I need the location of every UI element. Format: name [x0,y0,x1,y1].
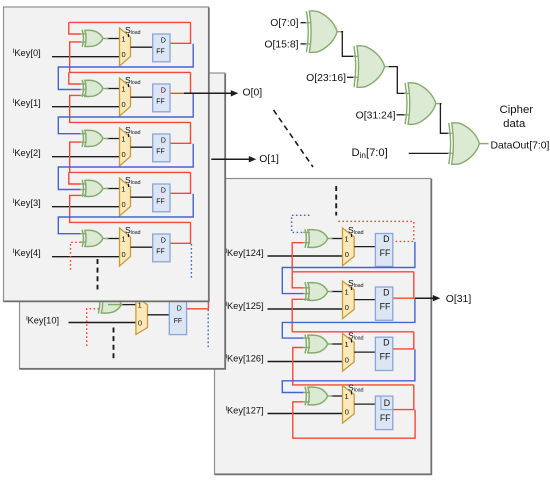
svg-text:O[7:0]: O[7:0] [270,18,298,29]
output arrow O[0] [231,90,239,96]
panel P2 shadow edges [19,74,225,369]
xor126 output stub [328,343,333,345]
panel P1 key-register background (rows 0..4) [4,7,209,301]
wire red FF127 feedback top horizontal [292,384,414,386]
mux124 select tick [351,234,353,237]
flip-flop127 D sub-box [381,396,393,410]
svg-text:IKey[10]: IKey[10] [26,316,59,326]
svg-text:O[15:8]: O[15:8] [264,39,298,50]
svg-text:0: 0 [122,50,126,59]
wire red FF125 feedback right vertical [413,272,415,298]
wire IKey[125] input line to mux 0 [268,308,343,310]
svg-text:1: 1 [121,234,125,243]
svg-text:0: 0 [138,319,142,328]
xor0 input stub 1 [80,41,86,43]
xor3 input stub 1 [80,189,86,191]
mux row IKey[1] [120,78,131,116]
wire blue FF125 output to xor126 [282,299,415,338]
wire red FF2 feedback right vertical [190,122,192,143]
xor127 output stub [328,395,333,397]
xor gate U1 (O[7:0] ^ O[15:8]) [309,11,337,52]
xor126 input stub 1 [303,347,310,349]
wire O[31] tap from FF125 output [415,297,434,299]
xor124 input stub 0 [303,231,310,233]
wire dotted red into xor row10 bottom input [87,309,99,346]
svg-text:0: 0 [345,250,349,259]
xor gate row IKey[4] [85,230,103,246]
xor1 input stub 2 [80,94,86,96]
svg-text:IKey[125]: IKey[125] [225,301,263,311]
svg-text:IKey[0]: IKey[0] [13,48,41,58]
flip-flop FF row IKey[0] [153,34,170,62]
wire mux2 output to D-FF [131,146,153,148]
wire xor0 output to mux 1 input [107,38,120,40]
svg-text:0: 0 [122,200,126,209]
xor4 input stub 0 [80,233,86,235]
mux126 select tick [351,339,353,342]
wire red FF2 output [170,142,191,144]
wire red FF125 output [393,297,415,299]
xor4 input stub 1 [80,241,86,243]
xor2 output stub [103,138,109,140]
wire red FF126 output [393,348,415,350]
wire red FF2 feedback top horizontal [69,121,191,123]
svg-text:1: 1 [121,84,125,93]
wire red FF3 output [170,192,191,194]
wire red FF4 feedback top horizontal [69,221,191,223]
xor1 output stub [103,88,109,90]
xor0 input stub 0 [80,33,86,35]
flip-flop FF row IKey[2] [153,134,170,162]
svg-text:0: 0 [122,250,126,259]
xor U1 input stub b [306,43,314,45]
svg-text:1: 1 [121,134,125,143]
wire red FF126 feedback right vertical [413,332,415,349]
wire red xor126 bottom input from FF127 [293,348,304,385]
mux row IKey[126] [343,334,355,372]
xor gate row IKey[125] [308,283,328,301]
svg-text:D: D [383,234,389,244]
mux3 select tick [128,184,130,187]
wire Din[7:0] input to xor U4 [409,152,450,154]
svg-text:FF: FF [156,49,164,56]
svg-text:FF: FF [380,248,391,258]
svg-text:IKey[126]: IKey[126] [225,354,263,364]
wire mux126 output to D-FF [354,351,375,353]
wire xor2 output to mux 1 input [107,138,120,140]
xor gate U3 (^ O[31:24]) [408,83,436,124]
wire red FF125 feedback top horizontal [292,271,414,273]
xor0 output stub [103,38,109,40]
wire xor3 output to mux 1 input [107,188,120,190]
wire red xor3 bottom input from FF4 [70,195,81,222]
wire red FF1 output [170,92,191,94]
wire red FF3 feedback right vertical [190,172,192,193]
mux row IKey[0] [120,28,131,66]
svg-text:FF: FF [156,249,164,256]
wire mux3 output to D-FF [131,196,153,198]
flip-flop FF row IKey[1] [153,84,170,112]
flip-flop FF row IKey[10] [169,300,186,335]
panel P2 key-register background (rows 5..15) [20,73,225,369]
svg-text:D: D [383,338,389,348]
wire xor U1 output to xor U2 [341,32,355,57]
xor127 input stub 0 [303,392,310,394]
flip-flop FF row IKey[127] [375,396,392,430]
svg-text:D: D [177,305,182,312]
wire red into xor3 top input [69,172,81,184]
svg-text:FF: FF [380,301,391,311]
flip-flop FF row IKey[4] [153,234,170,262]
xor U2 output stub [384,66,391,68]
wire red FF4 output [170,242,191,244]
wire red FF row10 output [187,301,209,309]
ellipsis dashed diagonal between O[1] and O[31] [274,110,314,167]
wire blue FF124 output to xor125 [282,242,415,294]
wire xor U3 output to xor U4 [440,104,450,134]
svg-text:0: 0 [345,407,349,416]
xor U2 input stub a [353,55,361,57]
mux row IKey[2] [120,128,131,166]
wire dotted blue FF4 output continuation down [190,244,192,279]
panel P3 key-register background (rows 120..127) [215,179,432,475]
wire IKey[127] input line to mux 0 [268,413,343,415]
mux127 select tick [351,391,353,394]
wire red FF126 feedback top horizontal [292,331,414,333]
xor127 input stub 1 [303,401,310,403]
mux row IKey[3] [120,178,131,216]
xor gate row IKey[10] [101,295,121,313]
wire red FF0 output [170,42,191,44]
wire xor1 output to mux 1 input [107,88,120,90]
svg-text:D: D [161,238,166,245]
xor U1 input stub a [306,22,314,24]
wire mux125 output to D-FF [354,299,375,301]
xor124 input stub 1 [303,242,310,244]
panel P3 shadow edges [214,179,431,474]
svg-text:O[31]: O[31] [446,294,472,305]
xor gate row IKey[126] [308,335,328,353]
xor gate row IKey[127] [308,387,328,405]
svg-text:FF: FF [174,318,182,325]
svg-text:1: 1 [345,340,349,349]
xor1 input stub 1 [80,89,86,91]
wire O[15:8] input to xor U1 [301,43,308,45]
flip-flop FF row IKey[3] [153,184,170,212]
mux row IKey[4] [120,228,131,266]
mux0 select tick [128,34,130,37]
xor U4 input stub a [448,132,456,134]
wire mux0 output to D-FF [131,46,153,48]
wire xor127 output to mux 1 input [331,395,343,397]
wire mux row10 output to D-FF [148,314,170,316]
output arrow O[31] [433,295,441,301]
wire mux124 output to D-FF [354,246,375,248]
xor2 input stub 1 [80,141,86,143]
svg-text:1: 1 [121,34,125,43]
flip-flop FF row IKey[125] [375,287,392,320]
ellipsis dashed continuation below row4 [97,259,99,290]
xor gate row IKey[0] [85,30,103,46]
wire red xor0 bottom input from FF1 [70,42,81,73]
wire mux1 output to D-FF [131,96,153,98]
flip-flop FF row IKey[126] [375,337,392,370]
xor3 input stub 0 [80,183,86,185]
svg-text:FF: FF [156,199,164,206]
svg-text:IKey[4]: IKey[4] [13,248,41,258]
svg-text:1: 1 [345,287,349,296]
svg-text:D: D [384,398,390,408]
svg-text:data: data [503,118,526,130]
xor3 output stub [103,188,109,190]
wire red FF127 feedback right vertical [413,385,415,410]
svg-text:FF: FF [156,149,164,156]
xor126 input stub 0 [303,337,310,339]
xor U4 output stub [479,143,488,145]
wire red FF3 feedback top horizontal [69,171,191,173]
svg-text:O[1]: O[1] [259,154,279,165]
svg-text:FF: FF [380,413,391,423]
xor124 output stub [328,238,333,240]
wire xor125 output to mux 1 input [331,291,343,293]
panel P1 shadow edges [3,8,209,302]
wire mux127 output to D-FF [354,403,375,405]
mux row IKey[127] [343,386,355,424]
xor gate row IKey[124] [308,230,328,248]
xor3 input stub 2 [80,194,86,196]
wire IKey[0] input line to mux 0 [52,56,120,58]
xor U1 output stub [337,31,344,33]
svg-text:0: 0 [345,303,349,312]
wire blue FF1 output to xor2 [58,94,193,134]
svg-text:IKey[1]: IKey[1] [13,98,41,108]
wire blue FF3 output to xor4 [58,194,193,234]
wire IKey[10] input to mux 0 [69,322,136,324]
wire dotted red xor4 bottom input continuation [71,242,81,270]
wire IKey[126] input line to mux 0 [268,361,343,363]
svg-text:D: D [161,138,166,145]
wire O[7:0] input to xor U1 [301,22,308,24]
xor U3 input stub b [404,114,412,116]
xor gate row IKey[1] [85,80,103,96]
svg-text:D: D [161,188,166,195]
wire red FF127 self-feedback bottom loop [293,402,415,438]
svg-text:1: 1 [345,392,349,401]
mux4 select tick [128,234,130,237]
wire xor126 output to mux 1 input [331,343,343,345]
svg-text:O[0]: O[0] [243,88,263,99]
wire blue FF0 output to xor1 [58,44,193,90]
ellipsis dashed continuation below row10 [113,328,115,360]
xor125 input stub 2 [303,298,310,300]
xor gate row IKey[3] [85,180,103,196]
wire xor124 output to mux 1 input [331,238,343,240]
svg-text:FF: FF [156,99,164,106]
wire dotted red FF124 feedback to hidden row123 [338,221,413,241]
wire dotted blue FF row10 output down [207,310,209,348]
svg-text:Din[7:0]: Din[7:0] [352,147,388,160]
mux125 select tick [351,287,353,290]
svg-text:0: 0 [122,100,126,109]
xor U3 output stub [436,103,443,105]
wire red into xor0 top input [69,22,81,34]
wire dotted blue from hidden FF123 into xor124 [292,215,310,232]
output arrow O[1] [249,156,256,162]
svg-text:0: 0 [122,150,126,159]
svg-text:1: 1 [121,184,125,193]
svg-text:O[31:24]: O[31:24] [356,110,396,121]
xor gate U4 (^ Din[7:0]) [452,123,480,164]
wire O[0] tap from FF1 output [184,92,232,94]
svg-text:O[23:16]: O[23:16] [306,73,346,84]
wire red FF127 output [393,409,415,411]
wire red into xor1 top input [69,72,81,84]
svg-text:Cipher: Cipher [500,104,534,116]
wire IKey[4] input line to mux 0 [52,256,120,258]
wire red xor125 bottom input from FF126 [292,299,303,332]
mux1 select tick [128,84,130,87]
wire red FF1 feedback right vertical [190,72,192,93]
svg-text:FF: FF [380,352,391,362]
xor125 input stub 0 [303,287,310,289]
wire blue FF126 output to xor127 [282,349,415,392]
wire red xor124 bottom input from FF125 [292,243,303,272]
svg-text:D: D [161,38,166,45]
xor U2 input stub b [353,76,361,78]
xor row10 output stub [108,304,123,306]
svg-text:D: D [161,88,166,95]
mux row IKey[124] [343,228,355,266]
wire IKey[3] input line to mux 0 [52,206,120,208]
svg-text:IKey[124]: IKey[124] [225,248,263,258]
wire red FF4 feedback right vertical [190,222,192,243]
wire red FF1 feedback top horizontal [69,71,191,73]
wire xor4 output to mux 1 input [107,238,120,240]
svg-text:IKey[2]: IKey[2] [13,148,41,158]
wire mux4 output to D-FF [131,246,153,248]
wire red FF0 feedback top horizontal [69,21,191,23]
wire IKey[2] input line to mux 0 [52,156,120,158]
mux2 select tick [128,134,130,137]
wire red FF0 feedback right vertical [190,22,192,43]
wire O[31:24] input to xor U3 [397,114,407,116]
xor gate U2 (^ O[23:16]) [357,46,385,87]
xor2 input stub 0 [80,133,86,135]
wire red xor1 bottom input from FF2 [70,95,81,122]
wire IKey[124] input line to mux 0 [268,255,343,257]
wire xor U2 output to xor U3 [389,67,406,94]
svg-text:IKey[127]: IKey[127] [225,406,263,416]
svg-text:DataOut[7:0]: DataOut[7:0] [491,141,550,152]
xor U3 input stub a [404,92,412,94]
wire IKey[1] input line to mux 0 [52,106,120,108]
xor U4 input stub b [448,152,456,154]
ellipsis dashed continuation above row124 [335,186,337,216]
wire red xor2 bottom input from FF3 [70,142,81,172]
mux row IKey[125] [343,281,355,319]
xor1 input stub 0 [80,83,86,85]
mux row IKey[10] [136,296,148,335]
wire O[1] from hidden row [211,158,249,160]
wire red into xor125 top input [292,272,303,288]
xor125 output stub [328,291,333,293]
xor125 input stub 1 [303,293,310,295]
xor gate row IKey[2] [85,130,103,146]
xor4 output stub [103,238,109,240]
flip-flop FF row IKey[124] [375,234,392,267]
svg-text:1: 1 [345,234,349,243]
svg-text:IKey[3]: IKey[3] [13,198,41,208]
svg-text:0: 0 [345,355,349,364]
wire xor row10 output to mux 1 input [122,304,136,306]
wire blue FF2 output to xor3 [58,144,193,190]
svg-text:D: D [383,288,389,298]
wire O[23:16] input to xor U2 [347,76,355,78]
